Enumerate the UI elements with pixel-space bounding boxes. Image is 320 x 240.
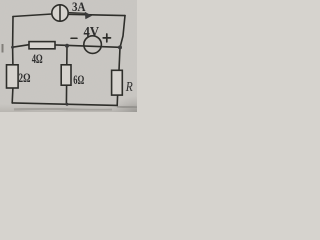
current source U1 bar	[59, 5, 61, 21]
current source U1 circle	[52, 5, 68, 21]
wire right vertical	[119, 16, 125, 71]
smudge bottom edge	[14, 109, 112, 110]
arrow 3A shaft	[70, 12, 86, 15]
node junction right	[118, 45, 122, 49]
svg-text:4Ω: 4Ω	[32, 51, 43, 66]
wire top-left	[13, 14, 52, 17]
resistor R box	[112, 70, 123, 95]
smudge left edge	[2, 44, 4, 53]
wire left lower stub	[11, 88, 14, 103]
shadow bottom-right corner	[0, 0, 1, 1]
wire left vertical	[12, 17, 14, 65]
resistor 2ohm box	[7, 65, 19, 88]
wire right lower stub	[116, 95, 118, 105]
voltage source V1 circle	[84, 36, 102, 54]
wire middle horizontal	[13, 45, 120, 48]
node junction 6ohm	[65, 44, 69, 48]
vignette bottom edge	[0, 0, 1, 1]
label plus sign	[103, 34, 110, 42]
wire 6ohm branch	[65, 46, 68, 104]
svg-text:2Ω: 2Ω	[19, 70, 31, 85]
smudge bottom-right streak	[117, 106, 137, 107]
resistor 6ohm box	[61, 65, 71, 85]
svg-text:6Ω: 6Ω	[73, 72, 84, 87]
node junction left	[11, 46, 14, 49]
node junction bottom	[66, 103, 69, 106]
svg-text:R: R	[125, 80, 133, 95]
wire bottom	[12, 103, 117, 106]
wire top-right	[68, 14, 125, 15]
label minus sign	[71, 37, 77, 39]
svg-text:3A: 3A	[72, 0, 86, 14]
svg-text:4V: 4V	[84, 24, 100, 40]
arrow 3A head	[85, 12, 92, 19]
resistor 4ohm box	[29, 42, 55, 49]
paper background	[0, 0, 137, 112]
